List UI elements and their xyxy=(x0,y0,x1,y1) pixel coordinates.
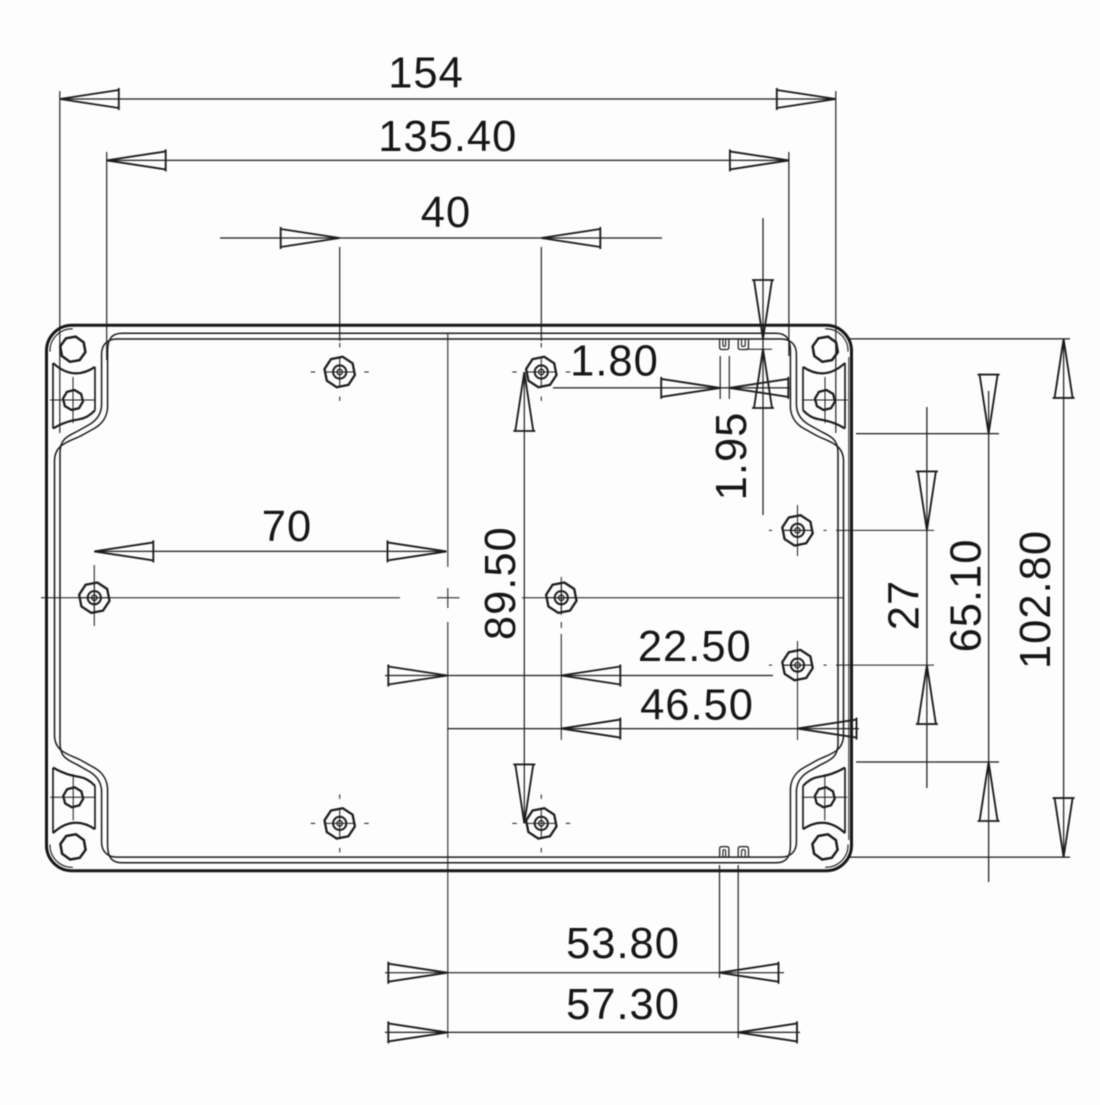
svg-text:57.30: 57.30 xyxy=(566,981,680,1029)
svg-text:154: 154 xyxy=(388,50,464,98)
svg-text:70: 70 xyxy=(262,503,312,551)
svg-text:46.50: 46.50 xyxy=(640,682,754,730)
svg-text:1.95: 1.95 xyxy=(708,412,756,501)
svg-text:135.40: 135.40 xyxy=(378,113,517,161)
svg-text:40: 40 xyxy=(421,189,471,237)
svg-text:65.10: 65.10 xyxy=(943,539,991,653)
svg-text:53.80: 53.80 xyxy=(566,920,680,968)
svg-text:1.80: 1.80 xyxy=(570,338,659,386)
svg-text:27: 27 xyxy=(881,580,929,630)
svg-text:102.80: 102.80 xyxy=(1012,530,1060,669)
svg-text:89.50: 89.50 xyxy=(477,526,525,640)
svg-text:22.50: 22.50 xyxy=(638,623,752,671)
